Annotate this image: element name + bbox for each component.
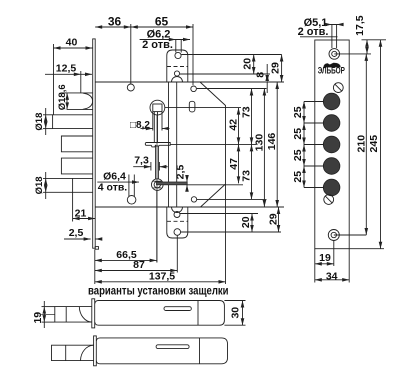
variant 2 latch bolt xyxy=(52,345,94,360)
ext line latch bevel start xyxy=(80,71,82,93)
leader rivet3 bottom xyxy=(197,198,267,200)
bracket dashed line top xyxy=(167,66,188,68)
ext ring down xyxy=(333,241,335,267)
svg-text:4 отв.: 4 отв. xyxy=(98,182,128,194)
v2 bolt inner line xyxy=(65,345,67,360)
dim 8 top xyxy=(266,64,268,74)
ext bracket hole axis down xyxy=(176,235,178,272)
post hole right bottom xyxy=(191,197,196,202)
cylinder hatch line bottom xyxy=(153,187,161,189)
dim 40 xyxy=(54,47,93,49)
screw slash bottom xyxy=(324,195,334,205)
svg-text:34: 34 xyxy=(326,270,338,282)
ext plate right down xyxy=(348,249,350,283)
dim 73 bottom xyxy=(251,144,253,199)
ext body right edge down xyxy=(225,184,227,284)
svg-text:73: 73 xyxy=(240,106,252,118)
bracket hole O6.2 bottom xyxy=(174,229,181,236)
svg-text:30: 30 xyxy=(230,307,242,319)
latch bevel curve xyxy=(83,93,93,109)
svg-text:17,5: 17,5 xyxy=(354,15,366,36)
deadbolt hole 5 (black) xyxy=(323,179,340,196)
v2 slot xyxy=(156,345,189,349)
leader hole1 top xyxy=(181,54,281,56)
key bar from cylinder xyxy=(157,182,188,185)
svg-text:2 отв.: 2 отв. xyxy=(298,26,329,38)
svg-text:25: 25 xyxy=(292,149,304,161)
v2 faceplate bar xyxy=(94,336,97,366)
leader hole4 bottom xyxy=(181,231,281,233)
body bottom edge ext xyxy=(201,206,285,208)
svg-text:8: 8 xyxy=(255,72,267,78)
variant 2 latch body xyxy=(96,338,227,364)
svg-text:40: 40 xyxy=(66,37,78,49)
top dim line 36 / 65 xyxy=(95,26,193,28)
spindle follower circle xyxy=(150,100,165,115)
deadbolt 3 (rect) xyxy=(61,158,92,174)
svg-text:2 отв.: 2 отв. xyxy=(142,39,173,51)
svg-text:25: 25 xyxy=(292,128,304,140)
faceplate front view outline xyxy=(315,40,349,249)
lock body outline (side view, chamfered right corners) xyxy=(95,82,225,207)
svg-text:146: 146 xyxy=(266,133,278,151)
bracket hole #2 xyxy=(174,71,179,76)
svg-text:42: 42 xyxy=(228,119,240,131)
leader spindle xyxy=(165,107,241,109)
latch bolt (top left) xyxy=(67,93,93,110)
svg-text:65: 65 xyxy=(155,15,169,29)
deadbolt hole 4 (black) xyxy=(323,158,340,175)
dim 47 xyxy=(238,144,240,183)
bottom bracket (rod mount) xyxy=(167,207,188,238)
dim 21 xyxy=(73,218,96,220)
dim 20 bottom xyxy=(251,214,253,233)
body inner vertical line right (rod channel) xyxy=(176,82,178,207)
dim 73 top xyxy=(251,89,253,145)
svg-text:Ø18: Ø18 xyxy=(34,176,45,194)
vertical centerline spindle-cylinder xyxy=(156,115,158,263)
small slot right of spindle xyxy=(189,101,195,112)
top screw hole O5.1 xyxy=(329,49,340,60)
dim 245 xyxy=(380,40,382,249)
lower stem right xyxy=(157,146,159,179)
square hole 8.2 xyxy=(153,104,162,112)
ext plate left down xyxy=(314,249,316,283)
deadbolt 2 (rect) xyxy=(61,136,92,152)
v1 bevel curve xyxy=(79,307,92,323)
cylinder inner circle xyxy=(154,181,160,187)
post slot + bottom hole O6.4 xyxy=(128,175,130,197)
faceplate bottom foot xyxy=(95,247,98,250)
svg-text:29: 29 xyxy=(267,213,279,225)
bracket hole #3 xyxy=(174,212,180,218)
sq8.2 ext left xyxy=(152,112,154,131)
svg-text:7,3: 7,3 xyxy=(134,155,149,167)
svg-text:73: 73 xyxy=(241,170,253,182)
svg-text:25: 25 xyxy=(292,106,304,118)
svg-text:2,5: 2,5 xyxy=(69,227,84,239)
leader rivet2 xyxy=(197,88,267,90)
svg-text:25: 25 xyxy=(292,171,304,183)
dim 42 xyxy=(238,108,240,145)
body top edge ext xyxy=(200,81,284,83)
top bracket (rod mount) xyxy=(167,50,188,82)
cylinder hatch line top xyxy=(153,180,161,182)
ext bolt4 tip xyxy=(72,192,74,221)
svg-text:варианты установки защелки: варианты установки защелки xyxy=(88,286,229,298)
logo ELBOR xyxy=(324,63,341,67)
leader hole3 bottom xyxy=(180,213,258,215)
variant 1 latch bolt xyxy=(55,307,92,323)
dim 34 xyxy=(315,279,349,281)
deadbolt 1 (O18, round) xyxy=(53,115,93,129)
latch top edge ext xyxy=(61,92,68,94)
deadbolt hole 1 (black) xyxy=(323,93,340,110)
semicircle bump on body top edge xyxy=(172,77,183,83)
dim 12,5 xyxy=(45,73,92,75)
deadbolt hole 3 (black) xyxy=(323,136,340,153)
variant 1 latch body xyxy=(95,301,225,326)
svg-text:20: 20 xyxy=(240,216,252,228)
svg-text:47: 47 xyxy=(228,158,240,170)
svg-text:20: 20 xyxy=(242,58,254,70)
svg-text:87: 87 xyxy=(133,259,145,271)
dim 29 top xyxy=(281,55,283,83)
dim 29 bottom xyxy=(278,207,280,232)
leader cylinder xyxy=(187,184,243,186)
svg-text:12,5: 12,5 xyxy=(56,63,77,75)
dim 210 xyxy=(365,54,367,235)
v1 bolt inner line xyxy=(65,307,67,323)
deadbolt hole 2 (black) xyxy=(323,115,340,132)
ext faceplate down xyxy=(94,249,96,284)
leader center/lever xyxy=(171,143,257,145)
svg-text:ЭЛЬБОР: ЭЛЬБОР xyxy=(318,66,345,76)
leader top hole right xyxy=(334,53,371,55)
lever / key ward piece xyxy=(145,143,170,147)
dim 87 xyxy=(95,270,178,272)
spindle stem left xyxy=(153,112,155,143)
svg-text:130: 130 xyxy=(254,134,266,152)
svg-text:2,5: 2,5 xyxy=(175,165,187,180)
svg-text:19: 19 xyxy=(319,252,331,264)
svg-text:36: 36 xyxy=(108,15,122,29)
dim 25 column xyxy=(304,101,324,103)
ext line post2 xyxy=(192,24,194,85)
v1 faceplate bar xyxy=(92,299,95,328)
plate bottom ext right xyxy=(349,248,384,250)
spindle stem right xyxy=(157,112,159,143)
leader hole2 top xyxy=(180,73,270,75)
post hole right top xyxy=(191,86,197,92)
post hole left top (O6.4) xyxy=(127,84,134,91)
plate top ext right xyxy=(362,39,387,41)
body inner vertical line left xyxy=(168,82,170,207)
dim 66,5 xyxy=(95,259,157,261)
dim 137,5 xyxy=(95,281,226,283)
svg-text:Ø18: Ø18 xyxy=(34,113,45,131)
ext line bolt tip x=53.5 xyxy=(53,44,55,115)
svg-text:137,5: 137,5 xyxy=(149,270,175,282)
dim 130 xyxy=(263,89,265,208)
leader bottom ring xyxy=(334,234,367,236)
dim 146 xyxy=(276,82,278,207)
v2 divider xyxy=(199,338,201,364)
ext line post1 xyxy=(130,24,132,84)
v1 divider xyxy=(197,301,199,326)
svg-text:29: 29 xyxy=(270,62,282,74)
v1 centerline tick xyxy=(41,313,55,315)
svg-text:245: 245 xyxy=(368,135,380,153)
deadbolt 4 (O18, short throw) xyxy=(73,178,93,192)
sq8.2 ext right xyxy=(161,112,163,131)
bottom hole with ring xyxy=(328,230,339,241)
dim 2,5 (plate thickness) xyxy=(64,238,91,240)
ext cylinder axis down xyxy=(156,191,158,263)
semicircle bump on body bottom edge xyxy=(172,207,183,213)
lower stem left xyxy=(155,146,157,179)
bracket dashed line bottom xyxy=(167,220,188,222)
v2 bevel curve (flipped) xyxy=(81,345,94,360)
cylinder outer circle xyxy=(152,179,164,191)
bracket hole O6.2 top xyxy=(175,52,181,58)
svg-text:210: 210 xyxy=(356,135,368,153)
svg-text:21: 21 xyxy=(75,207,87,219)
faceplate side view (vertical strip) xyxy=(93,39,96,248)
v1 slot xyxy=(164,307,191,311)
screw slash top xyxy=(333,83,343,93)
dim 20 top xyxy=(253,55,255,75)
